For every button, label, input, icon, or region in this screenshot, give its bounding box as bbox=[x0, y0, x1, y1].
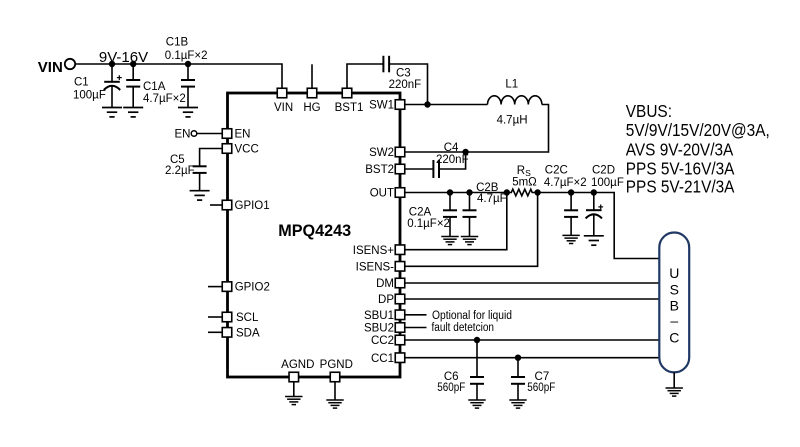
pin CC1 bbox=[371, 353, 405, 365]
capacitor C7 560pF bbox=[511, 358, 555, 400]
svg-text:0.1µF×2: 0.1µF×2 bbox=[165, 50, 208, 62]
wire DP to USB-C bbox=[405, 298, 660, 300]
pin SDA bbox=[222, 327, 260, 339]
svg-text:MPQ4243: MPQ4243 bbox=[278, 222, 351, 240]
wire L1 to SW2 row bbox=[405, 105, 549, 153]
ground C1A bbox=[123, 108, 143, 117]
wire ISENS- sense bbox=[405, 193, 538, 267]
svg-text:L1: L1 bbox=[505, 79, 518, 91]
ground PGND bbox=[326, 400, 343, 408]
svg-text:VIN: VIN bbox=[274, 102, 293, 114]
wire EN net to pin EN bbox=[197, 133, 222, 135]
node input rail C1A bbox=[130, 61, 136, 67]
svg-text:100µF: 100µF bbox=[591, 177, 624, 189]
capacitor C4 220nF bbox=[433, 142, 468, 178]
svg-text:SDA: SDA bbox=[236, 327, 260, 339]
pin OUT bbox=[370, 188, 405, 200]
svg-text:PPS 5V-16V/3A: PPS 5V-16V/3A bbox=[626, 159, 735, 178]
ground C5 bbox=[190, 191, 210, 200]
svg-text:ISENS+: ISENS+ bbox=[353, 245, 395, 257]
node SW1 bbox=[424, 101, 430, 107]
svg-text:EN: EN bbox=[175, 129, 191, 141]
pin PGND bbox=[320, 359, 353, 382]
node Rs right ISENS- bbox=[534, 189, 540, 195]
svg-text:220nF: 220nF bbox=[389, 79, 422, 91]
node VBUS C2C bbox=[568, 189, 574, 195]
ground C2B bbox=[461, 237, 478, 245]
svg-text:560pF: 560pF bbox=[437, 382, 465, 394]
capacitor C6 560pF bbox=[437, 340, 484, 400]
svg-text:BST2: BST2 bbox=[365, 164, 394, 176]
ground USB-C bbox=[666, 388, 683, 396]
pin SW2 bbox=[369, 147, 405, 159]
pin BST2 bbox=[365, 164, 405, 176]
svg-text:HG: HG bbox=[303, 102, 320, 114]
svg-text:C2A: C2A bbox=[409, 207, 432, 219]
wire CC1 to USB-C bbox=[405, 357, 660, 359]
capacitor C1B 0.1uF x2 bbox=[165, 36, 208, 107]
svg-text:SCL: SCL bbox=[236, 312, 259, 324]
svg-text:CC1: CC1 bbox=[371, 353, 394, 365]
pin SBU1 bbox=[364, 310, 405, 322]
svg-text:DM: DM bbox=[376, 278, 394, 290]
svg-text:4.7µH: 4.7µH bbox=[497, 115, 528, 127]
svg-text:PPS 5V-21V/3A: PPS 5V-21V/3A bbox=[626, 178, 735, 197]
node CC2 C6 bbox=[474, 337, 480, 343]
node OUT C2B bbox=[466, 189, 472, 195]
svg-text:DP: DP bbox=[378, 294, 394, 306]
resistor Rs 5mOhm bbox=[507, 165, 538, 196]
pin HG bbox=[303, 88, 320, 114]
svg-text:C2C: C2C bbox=[545, 164, 568, 176]
pin ISENS+ bbox=[353, 245, 405, 257]
capacitor C1 100uF electrolytic bbox=[73, 64, 122, 108]
wire CC2 to USB-C bbox=[405, 339, 660, 341]
pin VIN bbox=[274, 88, 293, 114]
pin DM bbox=[376, 278, 405, 290]
svg-text:100µF: 100µF bbox=[73, 90, 106, 102]
svg-text:4.7µF×2: 4.7µF×2 bbox=[143, 93, 186, 105]
svg-text:Optional for liquid: Optional for liquid bbox=[432, 310, 512, 322]
svg-text:2.2µF: 2.2µF bbox=[165, 165, 195, 177]
node CC1 C7 bbox=[515, 355, 521, 361]
wire input rail VIN to pin VIN bbox=[75, 64, 282, 88]
wire SW1 row to L1 bbox=[405, 104, 488, 106]
node SW2 C4 junction bbox=[462, 149, 468, 155]
wire SDA stub bbox=[208, 331, 222, 333]
ground C2D bbox=[584, 236, 604, 245]
svg-text:S: S bbox=[670, 281, 679, 297]
ground C1B bbox=[178, 108, 198, 117]
pin VCC bbox=[222, 144, 259, 156]
pin DP bbox=[378, 294, 405, 306]
wire SBU1 stub bbox=[405, 314, 427, 316]
svg-text:fault detetcion: fault detetcion bbox=[432, 322, 495, 334]
svg-text:SW2: SW2 bbox=[369, 147, 394, 159]
svg-text:BST1: BST1 bbox=[335, 102, 364, 114]
wire SCL stub bbox=[208, 316, 222, 318]
svg-text:GPIO1: GPIO1 bbox=[235, 200, 270, 212]
pin GPIO1 bbox=[222, 200, 269, 212]
svg-text:C1: C1 bbox=[74, 77, 89, 89]
ground C1 bbox=[102, 108, 122, 117]
pin SW1 bbox=[369, 100, 405, 112]
svg-text:C1A: C1A bbox=[143, 81, 166, 93]
capacitor C2D 100uF electrolytic bbox=[586, 164, 624, 236]
svg-text:PGND: PGND bbox=[320, 359, 353, 371]
svg-text:ISENS-: ISENS- bbox=[356, 261, 395, 273]
svg-text:4.7µF×2: 4.7µF×2 bbox=[544, 177, 587, 189]
svg-text:0.1µF×2: 0.1µF×2 bbox=[407, 218, 450, 230]
pin AGND bbox=[281, 359, 314, 382]
svg-text:560pF: 560pF bbox=[527, 382, 555, 394]
VBUS annotation text bbox=[626, 102, 770, 196]
svg-text:B: B bbox=[670, 297, 679, 313]
svg-text:C3: C3 bbox=[396, 68, 411, 80]
pin SCL bbox=[222, 312, 259, 324]
capacitor C3 220nF bbox=[383, 56, 421, 91]
node input rail C1B bbox=[185, 61, 191, 67]
wire VBUS row to USB-C bbox=[538, 193, 660, 259]
pin ISENS- bbox=[356, 261, 405, 273]
wire C3 to SW1 node bbox=[389, 64, 427, 105]
wire DM to USB-C bbox=[405, 282, 660, 284]
pin EN bbox=[222, 129, 250, 141]
wire SBU2 stub bbox=[405, 327, 427, 329]
capacitor C1A 4.7uF x2 bbox=[126, 64, 186, 108]
svg-text:220nF: 220nF bbox=[436, 154, 469, 166]
capacitor C2A 0.1uF x2 bbox=[407, 193, 457, 237]
node VBUS C2D bbox=[591, 189, 597, 195]
svg-text:SW1: SW1 bbox=[369, 100, 394, 112]
wire VCC to C5 bbox=[200, 149, 223, 167]
ground C2C bbox=[562, 235, 579, 243]
node OUT C2A bbox=[447, 189, 453, 195]
wire OUT row bbox=[405, 192, 507, 194]
capacitor C2B 4.7uF bbox=[463, 182, 507, 237]
wire GPIO2 stub bbox=[208, 286, 222, 288]
capacitor C2C 4.7uF x2 bbox=[544, 164, 587, 235]
inductor L1 4.7uH bbox=[488, 79, 542, 127]
pin CC2 bbox=[371, 335, 405, 347]
svg-text:5mΩ: 5mΩ bbox=[512, 177, 537, 189]
svg-text:VBUS:: VBUS: bbox=[626, 102, 672, 121]
svg-text:GPIO2: GPIO2 bbox=[235, 282, 270, 294]
wire AGND to ground bbox=[293, 382, 295, 397]
svg-text:VIN: VIN bbox=[38, 59, 63, 76]
wire USB-C shell to ground bbox=[673, 372, 675, 388]
wire C4 to SW2 node bbox=[439, 152, 466, 169]
svg-text:–: – bbox=[670, 313, 678, 329]
net label EN with terminal circle bbox=[175, 129, 197, 141]
svg-text:C4: C4 bbox=[444, 142, 459, 154]
svg-text:C1B: C1B bbox=[166, 36, 189, 48]
svg-text:5V/9V/15V/20V@3A,: 5V/9V/15V/20V@3A, bbox=[626, 121, 770, 140]
svg-text:SBU2: SBU2 bbox=[364, 323, 394, 335]
svg-text:4.7µF: 4.7µF bbox=[477, 193, 507, 205]
wire BST2 to C4 bbox=[405, 168, 434, 170]
node Rs left ISENS+ bbox=[504, 189, 510, 195]
ground C2A bbox=[441, 237, 458, 245]
svg-text:C2D: C2D bbox=[592, 164, 615, 176]
wire BST1 to C3 bbox=[347, 64, 383, 88]
svg-text:AVS 9V-20V/3A: AVS 9V-20V/3A bbox=[626, 141, 733, 160]
svg-text:U: U bbox=[669, 265, 679, 281]
connector J1 USB-C bbox=[659, 233, 689, 373]
ground AGND bbox=[285, 397, 302, 405]
svg-text:C: C bbox=[669, 330, 679, 346]
wire ISENS+ sense bbox=[405, 193, 507, 250]
svg-text:EN: EN bbox=[235, 129, 251, 141]
svg-text:CC2: CC2 bbox=[371, 335, 394, 347]
svg-text:OUT: OUT bbox=[370, 188, 394, 200]
svg-text:VCC: VCC bbox=[235, 144, 259, 156]
wire GPIO1 stub bbox=[210, 204, 222, 206]
pin GPIO2 bbox=[222, 282, 270, 294]
pin SBU2 bbox=[364, 323, 405, 335]
capacitor C5 2.2uF bbox=[165, 154, 207, 191]
ground C6 bbox=[468, 400, 485, 408]
node input rail C1 bbox=[109, 61, 115, 67]
wire PGND to ground bbox=[334, 382, 336, 400]
pin BST1 bbox=[335, 88, 364, 114]
svg-text:SBU1: SBU1 bbox=[364, 310, 394, 322]
IC U1 MPQ4243 body bbox=[228, 93, 401, 377]
ground C7 bbox=[509, 400, 526, 408]
wire HG stub bbox=[311, 64, 313, 88]
svg-text:AGND: AGND bbox=[281, 359, 314, 371]
